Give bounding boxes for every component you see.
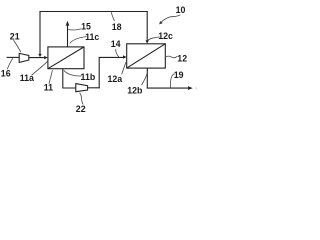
arrowhead of arrow 19 (188, 86, 193, 90)
leader arrow for label 10 (161, 15, 181, 23)
wire 11b down from block 11 (63, 69, 76, 88)
svg-text:11c: 11c (85, 32, 99, 42)
leader for label 16 (7, 58, 13, 69)
leader for label 12b (142, 70, 148, 85)
leader for label 11b (64, 70, 82, 76)
diagonal of block 12 (127, 44, 166, 68)
heat exchanger 12 (127, 44, 166, 68)
expander 22 (76, 84, 88, 92)
arrowhead down into block 12 top (port 12c) (146, 40, 149, 43)
arrowhead of leader 10 (159, 21, 163, 24)
arrowhead into block 12 (port 12a) (123, 55, 127, 58)
wire down from block 12 bottom (146, 68, 148, 88)
arrowhead of arrow 15 (66, 21, 70, 26)
svg-text:10: 10 (176, 5, 186, 15)
compressor 21 (19, 53, 29, 62)
arrowhead into block 11 (port 11a) (44, 56, 48, 59)
wire 14 into block 12 (99, 56, 124, 58)
leader for label 21 (14, 40, 21, 52)
wire 19 outlet (147, 87, 190, 89)
svg-text:12a: 12a (107, 74, 122, 84)
leader for label 12a (122, 62, 126, 74)
leader for label 11a (32, 61, 48, 75)
wire right vertical into block 12 top (146, 12, 148, 41)
speck right of arrow 19 (196, 88, 197, 89)
svg-text:19: 19 (174, 70, 184, 80)
svg-text:12c: 12c (158, 31, 173, 41)
diagonal of block 11 (48, 47, 84, 69)
leader for label 12c (148, 37, 160, 41)
leader for label 19 (170, 74, 174, 88)
feedback wire left vertical (39, 12, 41, 55)
heat exchanger 11 (48, 47, 84, 69)
arrow 15 shaft (67, 25, 69, 47)
svg-text:11a: 11a (20, 73, 34, 83)
svg-text:22: 22 (76, 104, 86, 114)
wire from compressor 21 to block 11 (29, 57, 45, 59)
leader for label 12 (165, 56, 178, 58)
svg-text:15: 15 (81, 22, 91, 32)
leader for label 18 (111, 12, 114, 21)
leader for label 11 (49, 70, 52, 84)
leader for label 22 (80, 93, 84, 105)
svg-text:11b: 11b (81, 72, 96, 82)
leader for label 15 (68, 29, 81, 30)
riser wire up to line 14 (98, 57, 100, 88)
svg-text:21: 21 (10, 32, 20, 42)
svg-text:12: 12 (177, 53, 187, 63)
svg-text:14: 14 (111, 39, 121, 49)
wire 16 inlet line (7, 56, 20, 58)
wire from expander 22 to riser (88, 87, 100, 89)
svg-text:16: 16 (1, 69, 11, 79)
svg-text:11: 11 (44, 83, 53, 93)
svg-text:12b: 12b (127, 85, 143, 95)
leader for label 14 (116, 49, 119, 57)
svg-text:18: 18 (112, 22, 122, 32)
arrowhead down at junction on inlet wire (38, 54, 41, 57)
wire top horizontal (line 18) (39, 11, 147, 13)
leader for label 11c (70, 37, 87, 44)
